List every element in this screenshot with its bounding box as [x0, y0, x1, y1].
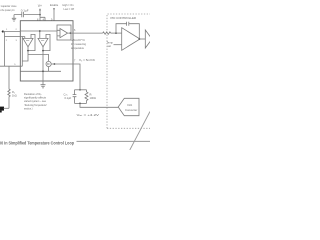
note: bypass capacitor annotation: [0, 4, 17, 12]
wire pin split: [40, 17, 45, 20]
svg-text:3: 3: [16, 40, 18, 42]
wire t1 to current source: [28, 55, 49, 62]
wire enable down to pin: [53, 10, 55, 21]
current source arrow: [47, 63, 50, 65]
wire internal lower-left pin: [20, 37, 25, 39]
wire load top bar: [75, 89, 87, 91]
resistor RL: [85, 90, 88, 104]
node t2/bus junction: [42, 70, 44, 72]
amplifier A2 feedback loop: [43, 34, 50, 50]
svg-text:2: 2: [6, 40, 8, 42]
svg-text:Rₗ: Rₗ: [90, 92, 93, 96]
node on output wire: [54, 63, 56, 65]
op-amp U1a triangle: [60, 29, 68, 38]
PID controller dashed box: [107, 14, 150, 128]
svg-text:PID CONTROLLER: PID CONTROLLER: [111, 16, 137, 20]
resistor R2: [103, 32, 111, 34]
svg-text:0.1µF: 0.1µF: [21, 8, 29, 12]
V+ arrow: [39, 8, 41, 10]
svg-text:Low = Off: Low = Off: [64, 7, 75, 11]
wire lead B to pin: [5, 36, 21, 38]
wire U2 output: [140, 38, 145, 40]
op-amp U2: [122, 28, 140, 51]
wire cap left to ground: [14, 15, 22, 19]
svg-text:2: 2: [16, 29, 18, 31]
wire A1 output: [22, 37, 28, 67]
node A2 out: [42, 50, 44, 52]
wire thermocouple lead A: [3, 31, 20, 33]
resistor RG: [8, 66, 10, 108]
current source I1: [46, 61, 51, 66]
svg-text:Cₗₕₜ: Cₗₕₜ: [64, 92, 68, 96]
node load top: [79, 89, 81, 91]
node load bottom: [79, 103, 81, 105]
Enable arrow: [53, 8, 55, 10]
svg-text:Converter: Converter: [125, 108, 137, 112]
svg-text:0.1µF: 0.1µF: [65, 96, 72, 100]
node U2 output: [138, 38, 140, 40]
ground G1: [12, 18, 16, 21]
amplifier A1 feedback loop: [28, 34, 35, 50]
wire current source to output pin: [51, 63, 73, 65]
op-amp U1a inner box: [57, 25, 71, 40]
capacitor C1: [22, 12, 24, 17]
svg-text:D/A: D/A: [128, 103, 133, 107]
svg-text:6: 6: [74, 29, 76, 32]
svg-text:V+: V+: [38, 4, 42, 8]
svg-text:section.): section.): [24, 106, 33, 110]
wire internal ground bus: [20, 67, 61, 72]
wire A2 output down: [42, 47, 44, 85]
svg-text:Temp: Temp: [107, 41, 114, 45]
black terminal bar: [0, 107, 4, 111]
feedback capacitor C3: [116, 22, 139, 39]
ground G2 below box: [41, 85, 46, 88]
wire internal bus upper: [20, 30, 57, 32]
svg-text:temperature: temperature: [71, 46, 84, 50]
svg-text:set: set: [108, 44, 112, 48]
node A1 out: [27, 50, 29, 52]
op-amp U3 (clipped): [145, 30, 152, 48]
note: RG deviation annotation: [24, 92, 47, 110]
wire R2 to op-amp: [111, 32, 122, 34]
svg-text:1: 1: [6, 29, 8, 31]
node PID input: [115, 32, 117, 34]
node: cap/V+ junction: [39, 14, 41, 16]
wire thermocouple lead B vertical: [4, 32, 6, 67]
wire V+ output of U1a to PID: [68, 32, 103, 34]
svg-text:Enable: Enable: [50, 3, 59, 7]
node U1a output: [69, 32, 71, 34]
amplifier A2 (down triangle): [38, 38, 48, 46]
svg-text:Vₐₜ = +4.2V: Vₐₜ = +4.2V: [77, 113, 100, 117]
wire set input: [114, 44, 122, 46]
svg-text:V₀ = 5mV/K: V₀ = 5mV/K: [79, 58, 95, 62]
wire internal bottom bus: [0, 65, 22, 67]
wire to A/D converter: [80, 103, 118, 107]
wire V+ down to pins: [39, 10, 41, 18]
IC box U1: [20, 21, 73, 81]
wire pin7 to load: [73, 64, 80, 90]
svg-text:to the power pin: to the power pin: [0, 8, 15, 12]
wire cap right to V+ line: [24, 14, 40, 16]
svg-text:100Ω: 100Ω: [90, 96, 96, 100]
A/D converter pentagon: [118, 98, 139, 115]
node A2 input: [39, 30, 41, 32]
thermocouple junction dot: [2, 30, 5, 33]
svg-text:Rₚ: Rₚ: [12, 90, 16, 94]
wire load bottom bar: [75, 102, 87, 104]
amplifier A1 (down triangle): [23, 38, 33, 46]
capacitor C2: [73, 90, 77, 104]
svg-text:7: 7: [74, 60, 76, 63]
svg-text:00 In Simplified Temperature C: 00 In Simplified Temperature Control Loo…: [0, 141, 74, 146]
op-amp U1a input stubs: [57, 30, 60, 36]
svg-text:1kΩ: 1kΩ: [12, 94, 17, 98]
diagonal page mark: [130, 112, 150, 151]
footer rule: [77, 140, 151, 142]
amplifier A2 input stub: [39, 31, 41, 38]
